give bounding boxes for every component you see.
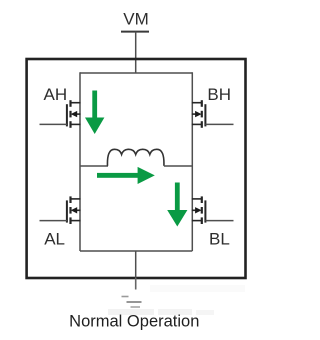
wire ground feed inside box [135,251,137,278]
svg-text:AH: AH [43,85,67,104]
svg-text:VM: VM [123,9,149,28]
wire bottom rail [80,250,192,252]
VM supply terminal bar [121,31,149,33]
svg-text:AL: AL [44,229,65,248]
wire right vertical (BH drain-source branch) [191,72,193,251]
outer box (driver IC outline) [27,59,246,278]
inductor L (motor winding) [107,149,163,166]
ground symbol (faded) [122,297,142,308]
wire middle rail right segment [164,165,192,167]
wire left vertical (AH drain-source branch) [79,72,81,251]
current arrow down through BL [167,183,187,227]
transistor Q3 AL (low-side left N-MOSFET) [40,196,81,224]
wire VM feed to top rail [135,32,137,73]
transistor Q4 BL (low-side right N-MOSFET) [192,196,234,224]
transistor Q2 BH (high-side right N-MOSFET) [192,100,234,128]
svg-text:BL: BL [209,229,230,248]
svg-text:Normal Operation: Normal Operation [69,313,199,331]
transistor Q1 AH (high-side left N-MOSFET) [40,100,81,128]
current arrow right through inductor [97,167,155,184]
current arrow down through AH [85,91,104,135]
wire ground stub below box [135,278,137,290]
svg-text:BH: BH [207,85,231,104]
wire top rail [80,72,192,74]
wire middle rail left segment [80,165,108,167]
